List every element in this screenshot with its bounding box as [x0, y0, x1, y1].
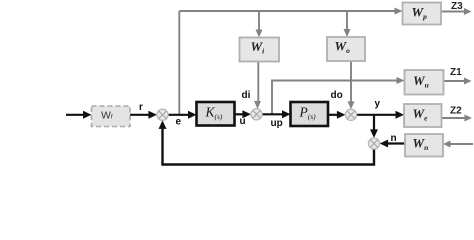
- svg-text:Z1: Z1: [450, 67, 462, 78]
- wire: We output arrow: [442, 115, 473, 122]
- wire: feed arrow into Wi: [256, 11, 263, 38]
- svg-text:r: r: [139, 102, 143, 113]
- wire: junction S3 to We (node y): [357, 111, 404, 119]
- wire: system input arrow: [66, 111, 92, 119]
- svg-text:Z2: Z2: [450, 106, 462, 117]
- wire: top horizontal line to Wp: [179, 8, 402, 15]
- wire: y branch down into junction S4: [370, 115, 378, 138]
- junction S1 (r - feedback): [157, 109, 168, 120]
- wire: Wn output to junction S4: [380, 140, 405, 148]
- junction S2 (u + di): [251, 109, 262, 120]
- wire: feedback junction S4 down, bottom run, and up into S1: [159, 120, 375, 164]
- svg-text:Z3: Z3: [451, 1, 463, 12]
- wire: Wi output down into junction S2: [254, 62, 261, 109]
- wire: input arrow into Wn from right: [443, 141, 473, 148]
- wire: Wr to junction S1: [130, 111, 157, 119]
- wire: up tap to Wu: [272, 77, 405, 114]
- svg-text:do: do: [331, 90, 343, 101]
- wire: feed arrow into Wo: [344, 11, 351, 37]
- svg-text:e: e: [176, 117, 182, 128]
- wire: Wo output down into junction S3: [348, 61, 355, 109]
- block Wn noise weight: [405, 134, 443, 157]
- wire: junction S1 to K: [168, 111, 196, 119]
- junction S3 (plant out + do): [345, 109, 356, 120]
- block P(s) plant: [291, 102, 329, 126]
- block Wr (dashed reference weight): [92, 106, 131, 127]
- wire: junction S2 to P: [262, 110, 290, 118]
- wire: K to junction S2: [235, 110, 251, 118]
- block Wi input uncertainty weight: [240, 38, 280, 62]
- svg-text:up: up: [271, 118, 283, 129]
- svg-text:y: y: [375, 99, 381, 110]
- svg-text:di: di: [242, 90, 251, 101]
- block Wo output uncertainty weight: [327, 37, 365, 61]
- block We error weight: [404, 104, 442, 127]
- junction S4 (y + n): [368, 138, 379, 149]
- block Wu control weight: [405, 70, 444, 95]
- wire: Wp output arrow: [441, 8, 472, 15]
- wire: e tap vertical to top line: [178, 11, 180, 114]
- wire: P to junction S3: [328, 111, 345, 119]
- svg-text:n: n: [391, 133, 397, 144]
- svg-text:u: u: [240, 116, 246, 127]
- wire: Wu output arrow: [444, 78, 472, 85]
- block K(s) controller: [197, 102, 235, 126]
- block Wp performance weight: [403, 3, 442, 25]
